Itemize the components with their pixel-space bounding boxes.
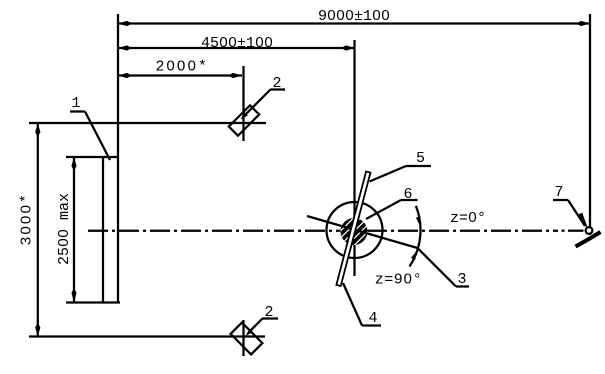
label 6 xyxy=(366,186,418,219)
line z=90 direction through center xyxy=(307,216,418,248)
3000 top arrow xyxy=(35,123,40,137)
2000 right arrow xyxy=(228,73,242,78)
wire dim line 2500 vertical xyxy=(73,157,75,302)
label 3 xyxy=(418,249,469,289)
4500 right arrow xyxy=(341,45,355,50)
wire dim line 2000 xyxy=(118,74,242,76)
microphone symbol 2 top xyxy=(229,75,285,136)
svg-text:4500±100: 4500±100 xyxy=(201,35,273,52)
dimension arrows xyxy=(35,21,590,337)
wire right reference vertical xyxy=(589,14,591,229)
9000 left arrow xyxy=(118,21,132,26)
outer circle (fan casing) xyxy=(327,202,383,258)
svg-text:z=90°: z=90° xyxy=(375,272,423,289)
svg-text:2500 max: 2500 max xyxy=(56,193,73,265)
wire bottom mic horizontal line xyxy=(29,335,265,337)
label 5 xyxy=(370,150,432,182)
hub hatched circle xyxy=(332,210,376,254)
zero glyph dot masks xyxy=(24,13,474,280)
label 1 xyxy=(70,95,110,160)
wire dim line 4500 xyxy=(118,47,355,49)
svg-text:5: 5 xyxy=(416,150,425,167)
wire mid vertical (4500 extension / fan axis) xyxy=(353,40,355,276)
arc arrow lower pointing up to line3 xyxy=(411,251,417,260)
node 7: measurement point circle xyxy=(586,227,593,234)
label 4 xyxy=(343,283,381,327)
svg-text:7: 7 xyxy=(554,184,563,201)
svg-text:1: 1 xyxy=(71,95,80,112)
2000 left arrow xyxy=(118,73,132,78)
label 7 with arrow xyxy=(553,184,588,230)
microphone symbol 2 bottom xyxy=(231,304,278,354)
wire rect left edge xyxy=(102,157,104,303)
wire dim line 9000 xyxy=(118,22,590,24)
wire top mic horizontal line xyxy=(29,122,266,124)
2500 top arrow xyxy=(71,157,76,171)
wire rect top edge extended xyxy=(66,156,118,158)
wire rect bottom edge extended xyxy=(66,301,120,303)
angle arc xyxy=(410,206,421,267)
swoosh under point 7 xyxy=(576,232,601,247)
wire bottom mic vertical stub xyxy=(242,320,244,356)
svg-text:z=0°: z=0° xyxy=(450,210,486,227)
rod (blade) rotated rectangle xyxy=(336,171,370,286)
wire left reference vertical xyxy=(117,14,119,303)
9000 right arrow xyxy=(576,21,590,26)
2500 bottom arrow xyxy=(71,288,76,302)
svg-text:9000±100: 9000±100 xyxy=(318,8,390,25)
wire top mic extension vertical xyxy=(242,66,244,141)
4500 left arrow xyxy=(118,45,132,50)
arc arrow upper pointing down to z=0 xyxy=(416,217,421,226)
3000 bottom arrow xyxy=(35,323,40,337)
wire dim line 3000 vertical xyxy=(37,123,39,337)
node centerline dash-dot xyxy=(88,230,584,232)
